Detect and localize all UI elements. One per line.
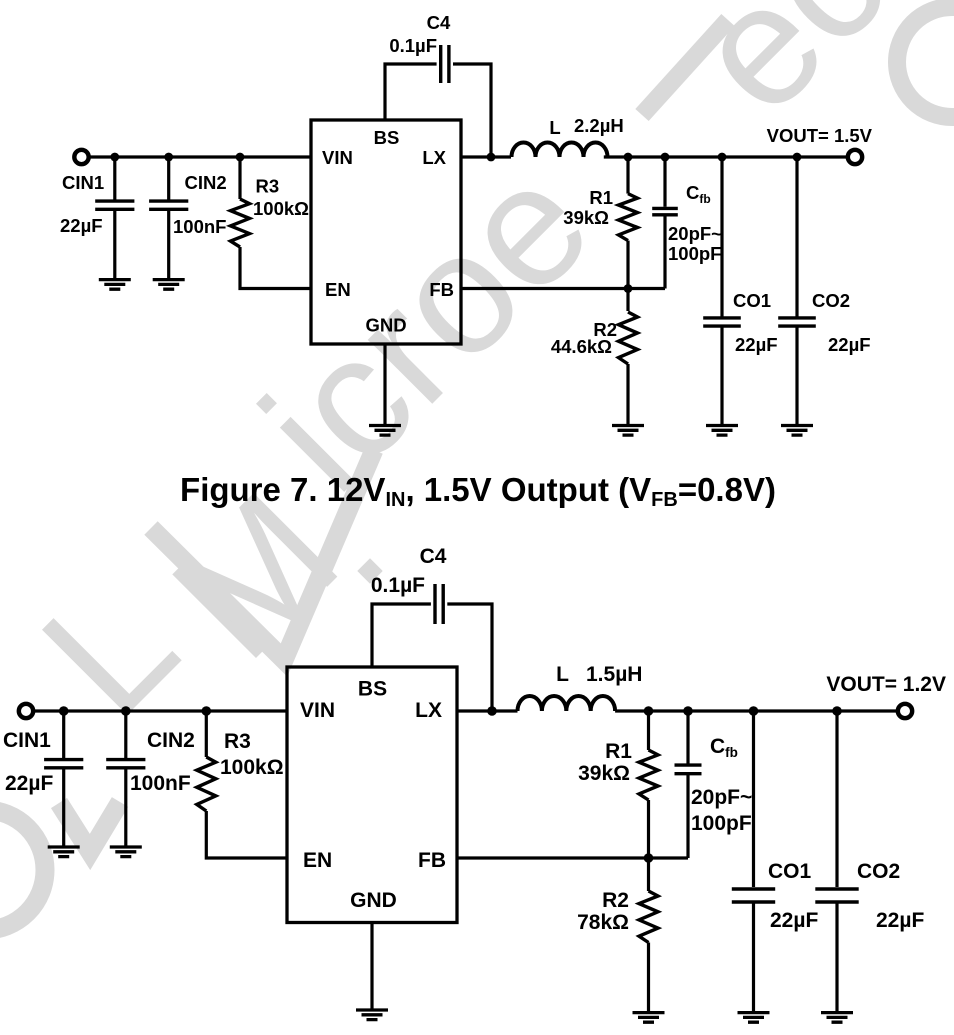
wire CO1 bottom (top) [720, 326, 723, 425]
resistor R2 78k (bottom) [639, 891, 658, 943]
wire CIN2 bottom (top) [167, 209, 170, 279]
wire R2 bottom (bottom) [647, 943, 650, 1013]
junction node CIN1 (top) [110, 153, 119, 162]
wire CIN2 top (bottom) [124, 711, 127, 759]
svg-text:44.6kΩ: 44.6kΩ [551, 336, 612, 357]
wire R3 top (top) [238, 157, 241, 199]
svg-text:VIN: VIN [300, 699, 335, 722]
wire R3 top (bottom) [205, 711, 208, 757]
capacitor CIN1 22uF (top) [95, 201, 134, 209]
wire output rail (top) [604, 155, 849, 158]
svg-text:39kΩ: 39kΩ [578, 762, 630, 785]
capacitor CO1 22uF (bottom) [732, 889, 775, 902]
svg-text:20pF~: 20pF~ [668, 223, 722, 244]
capacitor C4 0.1uF (top) [441, 45, 449, 83]
junction node CO1 (bottom) [749, 706, 759, 716]
resistor R3 100k (top) [231, 199, 250, 247]
junction node Cfb (top) [661, 153, 670, 162]
svg-text:Cfb: Cfb [710, 735, 738, 760]
wire CO2 bottom (top) [795, 326, 798, 425]
svg-text:22µF: 22µF [828, 334, 871, 355]
svg-text:39kΩ: 39kΩ [563, 207, 609, 228]
svg-text:78kΩ: 78kΩ [577, 911, 629, 934]
resistor R1 39k (bottom) [639, 750, 658, 800]
junction node CO2 (bottom) [832, 706, 842, 716]
svg-text:LX: LX [415, 699, 442, 722]
svg-text:C4: C4 [420, 545, 447, 568]
svg-text:Figure 7. 12VIN, 1.5V Output (: Figure 7. 12VIN, 1.5V Output (VFB=0.8V) [180, 471, 776, 511]
svg-text:BS: BS [358, 678, 387, 701]
svg-text:CIN1: CIN1 [3, 729, 51, 752]
capacitor CO2 22uF (top) [778, 318, 816, 326]
capacitor CIN2 100nF (top) [149, 201, 188, 209]
svg-text:0.1µF: 0.1µF [389, 35, 437, 56]
junction node LX (bottom) [487, 706, 497, 716]
junction node CIN2 (bottom) [121, 706, 131, 716]
wire input rail (bottom) [33, 709, 288, 712]
wire Cfb bottom (top) [663, 216, 666, 288]
svg-text:22µF: 22µF [735, 334, 778, 355]
svg-text:R3: R3 [224, 730, 251, 753]
svg-text:CIN1: CIN1 [62, 172, 104, 193]
input terminal VIN (bottom circuit) [19, 704, 33, 718]
junction node CIN1 (bottom) [59, 706, 69, 716]
wire R3 to EN (bottom) [206, 811, 287, 858]
wire C4 to LX node (top) [453, 64, 491, 157]
watermark corner stroke bottom-left [59, 802, 120, 852]
wire CO2 top (bottom) [835, 711, 838, 887]
svg-text:VOUT= 1.5V: VOUT= 1.5V [767, 125, 873, 146]
svg-text:2.2µH: 2.2µH [574, 115, 624, 136]
wire Cfb top (top) [663, 157, 666, 207]
resistor R2 44.6k (top) [619, 312, 638, 364]
svg-text:R2: R2 [602, 889, 629, 912]
svg-text:VOUT= 1.2V: VOUT= 1.2V [826, 673, 946, 696]
junction node R3 (bottom) [202, 706, 212, 716]
wire CO1 bottom (bottom) [752, 902, 755, 1013]
svg-text:BS: BS [374, 127, 400, 148]
junction node R1 (bottom) [644, 706, 654, 716]
ground CIN1 (top) [99, 280, 131, 290]
svg-text:100pF: 100pF [691, 812, 752, 835]
svg-text:R3: R3 [256, 176, 280, 197]
junction node R3 (top) [236, 153, 245, 162]
wire R3 to EN (top) [240, 247, 311, 289]
svg-text:VIN: VIN [322, 147, 353, 168]
watermark V swoosh under M [151, 450, 374, 660]
capacitor CO2 22uF (bottom) [815, 889, 858, 902]
ground CIN2 (bottom) [110, 847, 142, 857]
svg-text:FB: FB [429, 279, 454, 300]
capacitor C4 0.1uF (bottom) [435, 584, 443, 624]
svg-text:22µF: 22µF [770, 909, 818, 932]
wire R1 top (bottom) [647, 711, 650, 750]
svg-text:CO1: CO1 [733, 290, 771, 311]
wire BS to C4 (top) [385, 64, 437, 120]
svg-text:FB: FB [418, 849, 446, 872]
wire CO2 bottom (bottom) [835, 902, 838, 1013]
ground CIN1 (bottom) [48, 847, 80, 857]
junction node FB R1 R2 (bottom) [644, 853, 654, 863]
wire output rail (bottom) [615, 709, 898, 712]
junction node CO2 (top) [793, 153, 802, 162]
wire CIN2 bottom (bottom) [124, 768, 127, 847]
svg-text:20pF~: 20pF~ [691, 786, 752, 809]
wire CIN2 top (top) [167, 157, 170, 200]
wire CO2 top (top) [795, 157, 798, 318]
wire Cfb bottom (bottom) [686, 774, 689, 858]
ground R2 (bottom) [633, 1013, 665, 1023]
input terminal VIN (top circuit) [74, 150, 88, 164]
wire R1 bottom (bottom) [647, 800, 650, 858]
wire R1 top (top) [626, 157, 629, 194]
svg-text:CIN2: CIN2 [147, 729, 195, 752]
svg-text:EN: EN [303, 849, 332, 872]
ground CO2 (top) [781, 426, 813, 436]
svg-text:C4: C4 [427, 12, 451, 33]
svg-text:1.5µH: 1.5µH [586, 663, 642, 686]
svg-text:100kΩ: 100kΩ [253, 198, 309, 219]
ground CIN2 (top) [153, 280, 185, 290]
capacitor Cfb (top) [652, 208, 678, 214]
inductor L 1.5uH (bottom) [518, 696, 616, 711]
op-amp U1 regulator IC (top) [311, 120, 461, 344]
wire GND pin (bottom) [370, 923, 373, 1011]
svg-text:GND: GND [365, 315, 406, 336]
ground CO1 (bottom) [738, 1013, 770, 1023]
wire CO1 top (top) [720, 157, 723, 318]
wire GND pin (top) [383, 344, 386, 426]
op-amp U2 regulator IC (bottom) [287, 667, 457, 923]
svg-text:22µF: 22µF [5, 772, 53, 795]
watermark l stem stroke [642, 20, 728, 115]
svg-text:L: L [549, 117, 560, 138]
wire LX to inductor (bottom) [457, 709, 518, 712]
ground R2 (top) [612, 426, 644, 436]
svg-text:Cfb: Cfb [686, 182, 711, 206]
svg-text:100nF: 100nF [130, 772, 191, 795]
junction node FB R1 R2 (top) [624, 284, 633, 293]
ground IC GND (top) [369, 426, 401, 436]
junction node Cfb (bottom) [683, 706, 693, 716]
junction node CO1 (top) [718, 153, 727, 162]
capacitor CIN2 100nF (bottom) [106, 760, 145, 768]
capacitor Cfb (bottom) [675, 765, 702, 774]
wire CIN1 bottom (bottom) [62, 768, 65, 847]
watermark text fragments diagonal gray [6, 0, 954, 752]
svg-text:icroe: icroe [226, 127, 625, 526]
svg-text:CO2: CO2 [857, 860, 900, 883]
wire FB line (top) [461, 287, 665, 290]
svg-text:22µF: 22µF [876, 909, 924, 932]
svg-text:CO2: CO2 [812, 290, 850, 311]
output terminal VOUT (bottom circuit) [898, 704, 912, 718]
svg-text:LX: LX [422, 147, 446, 168]
ground IC GND (bottom) [356, 1010, 388, 1020]
svg-text:GND: GND [350, 889, 397, 912]
junction node LX (top) [487, 153, 496, 162]
svg-text:22µF: 22µF [60, 215, 103, 236]
ground CO1 (top) [706, 426, 738, 436]
wire input rail (top) [88, 155, 311, 158]
output terminal VOUT (top circuit) [848, 150, 862, 164]
wire Cfb top (bottom) [686, 711, 689, 765]
resistor R3 100k (bottom) [197, 757, 216, 811]
svg-text:100nF: 100nF [173, 216, 226, 237]
capacitor CIN1 22uF (bottom) [44, 760, 83, 768]
svg-text:CIN2: CIN2 [185, 172, 227, 193]
svg-text:L: L [556, 663, 569, 686]
svg-text:EN: EN [325, 279, 351, 300]
resistor R1 39k (top) [619, 194, 638, 241]
capacitor CO1 22uF (top) [703, 318, 741, 326]
wire R2 top (top) [626, 289, 629, 312]
ground CO2 (bottom) [821, 1013, 853, 1023]
svg-text:100kΩ: 100kΩ [220, 756, 284, 779]
wire CIN1 top (bottom) [62, 711, 65, 759]
wire CIN1 top (top) [113, 157, 116, 200]
watermark ring bottom-left [0, 810, 45, 930]
svg-text:0.1µF: 0.1µF [371, 574, 425, 597]
svg-text:100pF: 100pF [668, 243, 721, 264]
watermark diamond fleck [357, 558, 382, 583]
svg-text:R1: R1 [589, 187, 613, 208]
wire R2 bottom (top) [626, 364, 629, 426]
wire CIN1 bottom (top) [113, 209, 116, 279]
svg-text:R1: R1 [605, 740, 632, 763]
wire R2 top (bottom) [647, 858, 650, 891]
wire CO1 top (bottom) [752, 711, 755, 887]
inductor L 2.2uH (top) [512, 143, 608, 158]
svg-text:CO1: CO1 [768, 860, 812, 883]
junction node R1 (top) [624, 153, 633, 162]
junction node CIN2 (top) [164, 153, 173, 162]
wire C4 to LX node (bottom) [447, 604, 492, 711]
wire LX to inductor (top) [461, 155, 511, 158]
watermark arc top-right corner [897, 7, 954, 117]
wire FB line (bottom) [457, 856, 688, 859]
wire R1 bottom (top) [626, 241, 629, 289]
wire BS to C4 (bottom) [372, 604, 431, 667]
